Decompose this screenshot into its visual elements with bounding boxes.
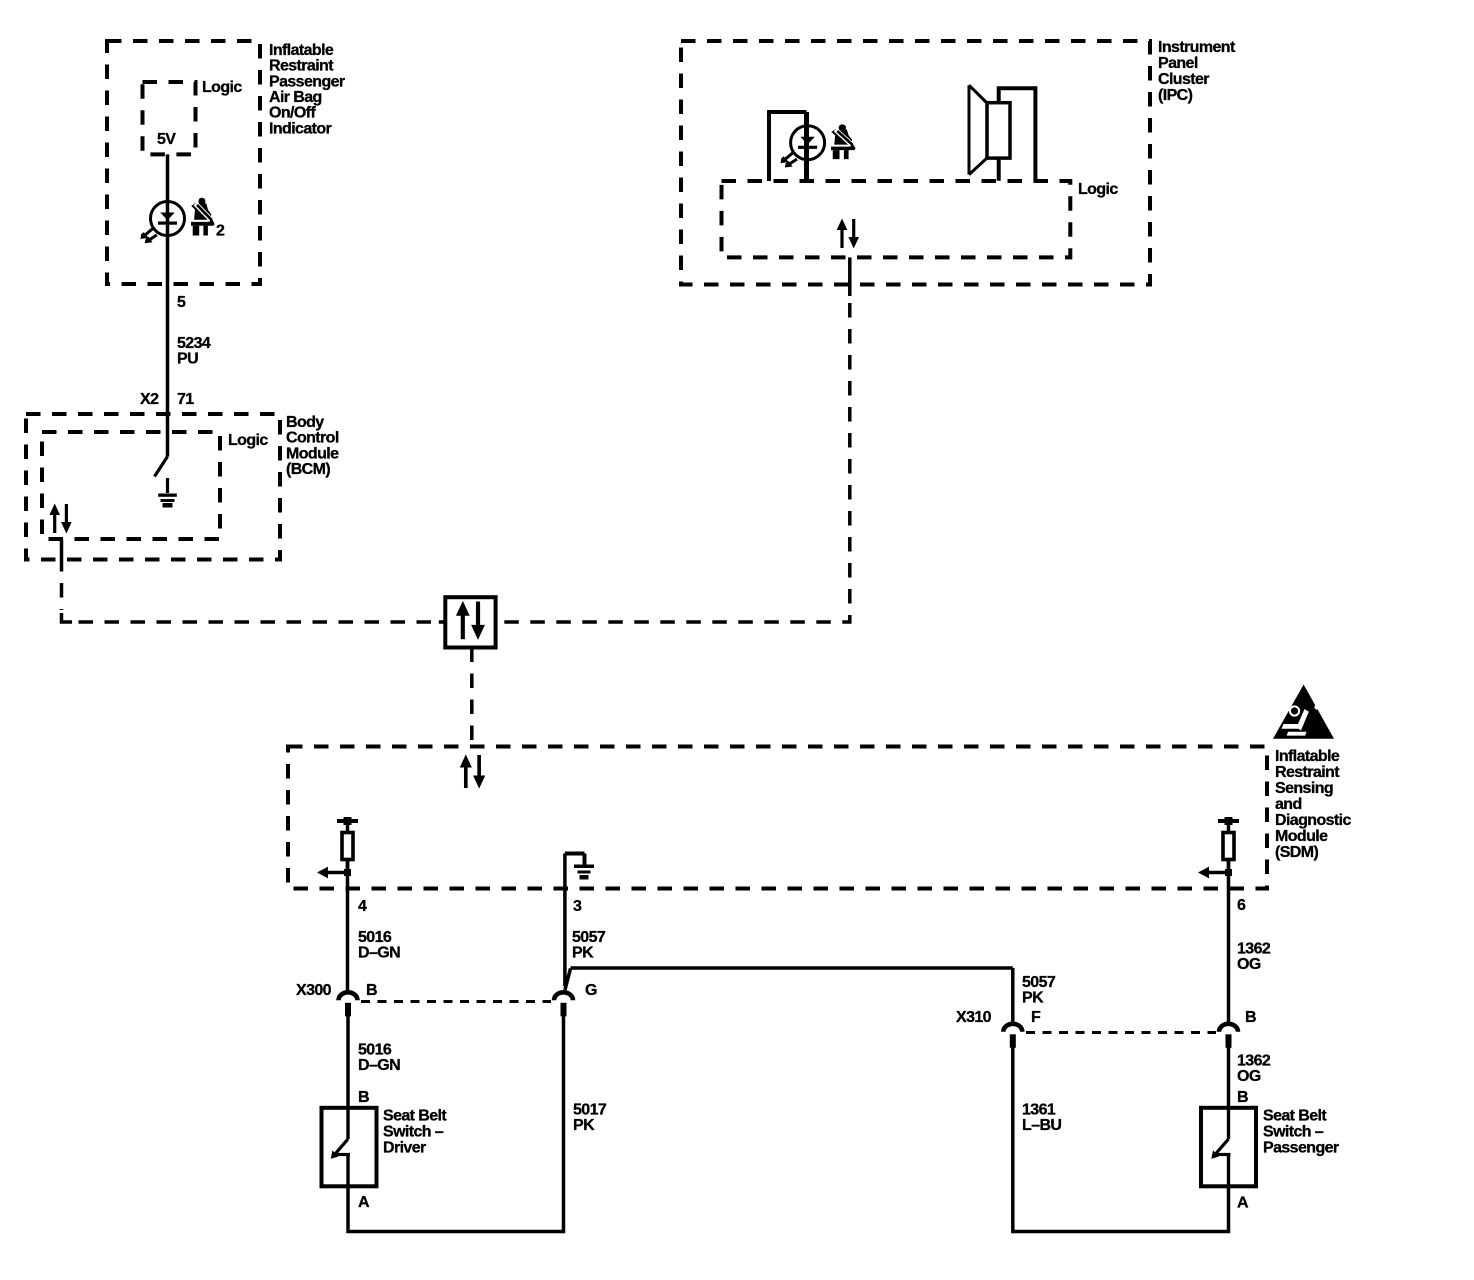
wire: BCM serial data out (solid part): [60, 539, 64, 572]
svg-text:1362OG: 1362OG: [1237, 941, 1271, 974]
serial data arrows (IPC): [837, 219, 859, 249]
svg-text:G: G: [585, 982, 597, 999]
resistor + sense arrow (SDM driver belt input): [317, 817, 358, 878]
ground (SDM internal, pin 3): [565, 854, 594, 880]
connector X310 terminal B: [1219, 1024, 1238, 1048]
svg-text:X300: X300: [296, 982, 332, 999]
svg-text:6: 6: [1237, 897, 1246, 914]
module box: Inflatable Restraint Sensing and Diagnostic Module (SDM): [288, 747, 1267, 889]
svg-text:1362OG: 1362OG: [1237, 1053, 1271, 1086]
wire: 5057 PK branch to X310: [565, 968, 1013, 1022]
seat belt switch driver box: [322, 1108, 377, 1187]
svg-text:5V: 5V: [157, 131, 176, 148]
svg-text:B: B: [358, 1089, 369, 1106]
svg-text:X2: X2: [140, 391, 159, 408]
svg-text:A: A: [358, 1194, 370, 1211]
switch blade (driver): [331, 1108, 350, 1187]
telltale lamp housing (IPC): [769, 112, 807, 181]
svg-text:1361L–BU: 1361L–BU: [1022, 1102, 1061, 1135]
svg-text:5234PU: 5234PU: [177, 335, 211, 368]
svg-text:4: 4: [358, 898, 367, 915]
svg-text:B: B: [1237, 1089, 1248, 1106]
svg-text:B: B: [366, 982, 377, 999]
ground (BCM internal): [158, 478, 177, 508]
resistor + sense arrow (SDM passenger belt input): [1198, 817, 1239, 878]
module box: Body Control Module (BCM): [26, 414, 280, 560]
svg-text:3: 3: [573, 898, 582, 915]
svg-text:2: 2: [216, 223, 225, 240]
wire: SDM pin 6 to connector B: [1227, 861, 1231, 1022]
seat belt switch passenger box: [1201, 1108, 1256, 1187]
serial data arrows (DLC): [456, 601, 485, 640]
svg-text:5057PK: 5057PK: [572, 929, 606, 962]
serial data arrows (SDM): [460, 754, 485, 788]
seat belt icon (IPC): [831, 124, 856, 159]
switch (BCM low-side driver): [155, 457, 168, 477]
svg-text:A: A: [1237, 1195, 1249, 1212]
wire: G to driver loop, circuit 5017 PK: [562, 1016, 566, 1233]
svg-text:InflatableRestraintPassengerAi: InflatableRestraintPassengerAir BagOn/Of…: [269, 42, 345, 137]
svg-text:F: F: [1031, 1009, 1041, 1026]
connector mating line X310: [1026, 1031, 1216, 1034]
svg-text:5: 5: [177, 294, 186, 311]
connector X300 terminal B: [339, 992, 358, 1016]
wire: DLC to SDM dashed: [470, 648, 474, 747]
svg-text:5016D–GN: 5016D–GN: [358, 929, 400, 962]
wire: X300-B to driver switch, circuit 5016 D-GN: [346, 1016, 350, 1108]
seat belt icon (indicator): [191, 198, 215, 236]
svg-text:B: B: [1245, 1009, 1256, 1026]
logic block of IPC: [722, 181, 1071, 257]
serial data arrows (BCM): [49, 504, 71, 534]
speaker (IPC chime): [969, 85, 987, 174]
data link connector block: [445, 597, 495, 647]
module box: Instrument Panel Cluster (IPC): [681, 41, 1150, 285]
wire: driver switch A loop to 5017 PK: [348, 1186, 564, 1231]
svg-text:Logic: Logic: [228, 432, 268, 449]
svg-text:InflatableRestraintSensingandD: InflatableRestraintSensingandDiagnosticM…: [1275, 748, 1351, 861]
wire: SDM pin 3 to splice/G: [563, 854, 567, 987]
svg-text:Seat BeltSwitch –Driver: Seat BeltSwitch –Driver: [383, 1108, 447, 1157]
svg-text:InstrumentPanelCluster(IPC): InstrumentPanelCluster(IPC): [1158, 39, 1236, 104]
wire: passenger switch A loop: [1013, 1186, 1229, 1231]
logic block of BCM: [42, 432, 220, 539]
connector mating line X300: [361, 1000, 551, 1003]
svg-text:Seat BeltSwitch –Passenger: Seat BeltSwitch –Passenger: [1263, 1108, 1339, 1157]
LED telltale (IPC): [781, 126, 825, 168]
svg-text:Logic: Logic: [1078, 181, 1118, 198]
svg-text:5016D–GN: 5016D–GN: [358, 1042, 400, 1075]
wire: IPC serial data dashed run: [496, 303, 850, 622]
switch blade (passenger): [1211, 1108, 1230, 1187]
wire: 5V supply to LED and pin 5: [166, 154, 170, 414]
svg-text:Logic: Logic: [202, 79, 242, 96]
logic block of indicator: [143, 82, 196, 154]
wire: connector B to passenger switch, circuit 1362 OG: [1227, 1047, 1231, 1108]
wire: IPC serial data (solid stub): [848, 257, 852, 296]
svg-text:X310: X310: [956, 1009, 992, 1026]
connector X300 terminal G: [554, 992, 573, 1016]
wire stub into DLC (left): [439, 620, 446, 624]
svg-text:BodyControlModule(BCM): BodyControlModule(BCM): [286, 414, 339, 478]
airbag warning triangle icon: [1273, 685, 1334, 739]
wire: SDM pin 4 to X300: [346, 861, 350, 990]
svg-text:71: 71: [177, 391, 194, 408]
connector X310 terminal F: [1003, 1024, 1022, 1048]
wire: X310-F to passenger loop, circuit 1361 L-BU: [1011, 1047, 1015, 1233]
wire: pin 71 into BCM switch: [166, 414, 170, 457]
svg-text:5017PK: 5017PK: [573, 1102, 607, 1135]
svg-text:5057PK: 5057PK: [1022, 974, 1056, 1007]
module box: Inflatable Restraint Passenger Air Bag On/Off Indicator: [107, 41, 260, 284]
wire: BCM serial data dashed run to DLC: [60, 583, 64, 610]
LED indicator lamp: [141, 202, 185, 244]
